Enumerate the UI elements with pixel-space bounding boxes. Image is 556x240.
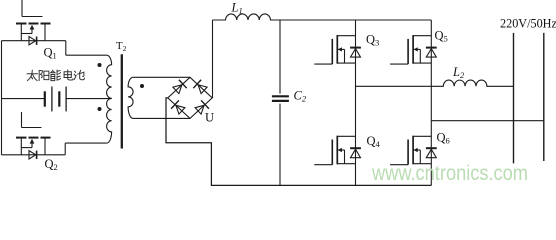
svg-text:www.cntronics.com: www.cntronics.com — [371, 162, 528, 185]
svg-text:U: U — [205, 111, 214, 125]
svg-text:220V/50Hz: 220V/50Hz — [500, 17, 556, 31]
